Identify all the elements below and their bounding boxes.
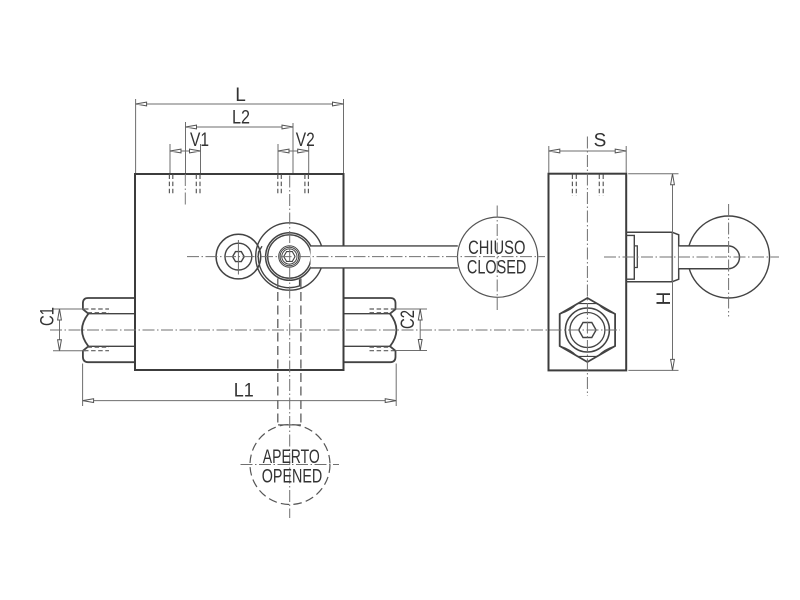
knob outer circle — [256, 223, 323, 290]
stem tab — [634, 246, 637, 268]
svg-text:C2: C2 — [398, 310, 419, 329]
dimension H arrows — [671, 174, 675, 371]
relief screw vertical centerline — [237, 240, 239, 275]
port V2 thread dashed lines — [278, 175, 309, 195]
port V1 centerline — [184, 174, 186, 206]
CENTERLINES — [50, 137, 779, 519]
dimension V1 extension lines — [170, 144, 201, 173]
knob hub circles — [279, 246, 300, 267]
left hex face lines — [88, 314, 134, 347]
stem boss — [626, 232, 672, 281]
bottom hex plug hexagon — [560, 298, 615, 362]
dimension V2 arrows — [278, 149, 309, 153]
dimension L2 extension lines — [186, 122, 294, 173]
valve body — [135, 174, 344, 370]
dimension H extension lines — [628, 174, 678, 371]
svg-text:APERTO: APERTO — [263, 447, 320, 468]
side ports thread dashed lines — [572, 175, 603, 197]
side lever rod — [679, 246, 740, 269]
CHIUSO circle vertical centerline — [496, 206, 498, 311]
svg-text:V1: V1 — [190, 130, 209, 151]
front ports horizontal centerline — [50, 329, 620, 331]
dimension L1 extension lines — [83, 364, 397, 407]
dimension C2 arrows — [418, 309, 422, 351]
dimension H line — [672, 174, 674, 371]
relief screw hex socket — [233, 252, 245, 262]
lever rod (closed position) — [311, 246, 458, 268]
dimension L2 line — [186, 126, 294, 128]
dimension C2 extension lines — [396, 309, 428, 351]
dimension L1 arrows — [83, 399, 397, 403]
svg-text:S: S — [594, 131, 607, 152]
knob hex socket — [284, 252, 295, 262]
hex plug chamfer chords — [577, 304, 598, 357]
knob retaining clip arc — [258, 246, 299, 287]
svg-text:CLOSED: CLOSED — [467, 257, 526, 278]
left port hex fitting — [82, 298, 135, 362]
svg-text:OPENED: OPENED — [262, 466, 323, 487]
dimension L arrows — [136, 102, 344, 106]
side stem horizontal centerline — [604, 256, 779, 258]
svg-text:CHIUSO: CHIUSO — [468, 238, 525, 259]
dimension L2 arrows — [186, 125, 294, 129]
hex plug circles — [565, 308, 609, 352]
dimension C1 arrows — [58, 309, 62, 351]
side view vertical centerline — [586, 137, 588, 397]
left port thread dashed lines — [84, 309, 109, 351]
side body — [549, 174, 627, 371]
DIMENSIONS — [53, 99, 679, 406]
svg-text:V2: V2 — [296, 130, 315, 151]
stem collar — [672, 232, 678, 281]
dimension S line — [549, 150, 626, 152]
dimension L1 line — [83, 400, 397, 402]
dimension S arrows — [549, 149, 626, 153]
SIDE-VIEW — [549, 174, 770, 371]
svg-text:L2: L2 — [232, 108, 250, 129]
front knob vertical centerline — [289, 176, 291, 519]
side knob circle — [688, 216, 770, 298]
dimension S extension lines — [549, 146, 626, 173]
side knob vertical centerline — [728, 204, 730, 317]
dimension V1 line — [170, 150, 201, 152]
hex plug face chamfer arcs — [560, 304, 615, 356]
CHIUSO position circle — [458, 217, 538, 297]
right hex face lines — [344, 314, 391, 347]
APERTO circle horizontal centerline — [241, 464, 340, 466]
svg-text:L: L — [235, 85, 246, 106]
dimension C1 line — [59, 309, 61, 351]
lever rod opened position (dashed) — [278, 279, 301, 425]
stem washer rectangle — [626, 235, 634, 279]
dimension V2 line — [278, 150, 309, 152]
port V1 thread dashed lines — [169, 175, 200, 195]
rod end cap at APERTO circle — [278, 424, 301, 426]
relief screw circles — [216, 234, 261, 279]
svg-text:C1: C1 — [38, 307, 59, 326]
dimension L line — [136, 103, 344, 105]
dimension C1 extension lines — [53, 309, 86, 351]
dimension V1 arrows — [170, 149, 201, 153]
APERTO position circle (phantom) — [250, 425, 330, 505]
FRONT-VIEW — [82, 174, 538, 505]
svg-text:H: H — [654, 292, 675, 306]
hex plug socket — [579, 323, 596, 338]
svg-text:L1: L1 — [234, 381, 254, 402]
right port hex fitting — [344, 298, 397, 362]
dimension V2 extension lines — [278, 144, 309, 173]
dimension L extension lines — [136, 99, 344, 173]
dimension C2 line — [419, 309, 421, 351]
front main horizontal centerline — [187, 256, 545, 258]
knob flange circles — [266, 233, 314, 281]
right port thread dashed lines — [370, 309, 395, 351]
